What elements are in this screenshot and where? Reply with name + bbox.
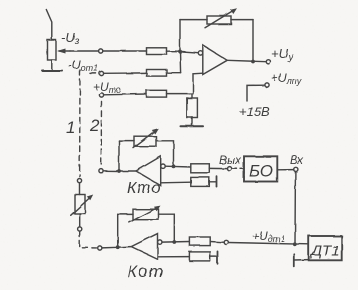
variable resistor RV2 — [134, 136, 156, 146]
op-amp U1 triangle — [203, 45, 227, 74]
svg-text:Вх: Вх — [290, 155, 304, 167]
node DT1 junction — [293, 242, 297, 246]
svg-text:Вых: Вых — [219, 155, 242, 167]
resistor R2 — [147, 70, 167, 77]
svg-text:Кто: Кто — [127, 180, 161, 197]
op-amp Kto triangle (points left) — [136, 156, 161, 185]
terminal circle row2 — [99, 71, 103, 75]
wire: Kot feedback riser — [117, 214, 119, 247]
dashed line 1 vertical — [79, 70, 81, 177]
wire: terminal to DT1 node and box — [228, 243, 308, 245]
svg-text:+15В: +15В — [239, 104, 270, 119]
wire dash before row2 terminal — [90, 72, 96, 74]
terminal circle +Uy — [266, 60, 270, 64]
op-amp Kot input bubble — [158, 240, 162, 244]
variable resistor RV2 arrow — [133, 128, 158, 147]
terminal circle line1 bottom — [98, 246, 102, 250]
wire: R5 to Vyh terminal — [209, 167, 227, 169]
wire: BO to Vx terminal — [277, 169, 293, 171]
wire: Kot feedback top left — [118, 213, 133, 215]
wire: feedback left riser to summing node — [179, 20, 181, 52]
terminal circle Вых — [228, 167, 232, 171]
variable resistor RV4 — [133, 209, 159, 220]
wire: R7 to terminal — [210, 241, 224, 244]
wire: R2 to bus — [167, 72, 181, 74]
node Kto output junction — [117, 169, 121, 173]
wire: Kto feedback top right and drop — [156, 141, 174, 167]
potentiometer RP1 body — [48, 40, 57, 60]
wire: node to R4 top — [191, 94, 193, 98]
block ДТ1 box — [309, 236, 342, 260]
wire: feedback top right segment — [231, 19, 253, 21]
terminal circle line2 bottom — [99, 169, 103, 173]
stub bar at DT1 — [293, 254, 295, 267]
node Kot output junction — [116, 245, 120, 249]
terminal circle +Uлпу — [265, 83, 269, 87]
op-amp Kot triangle (points left) — [131, 234, 157, 259]
wire: Kto feedback riser — [118, 141, 120, 171]
wire: Kto bubble to R5 — [165, 165, 191, 168]
svg-text:2: 2 — [89, 116, 100, 135]
potentiometer RP1 wiper arrow — [57, 49, 70, 54]
wire: Kot feedback top right and drop — [159, 214, 175, 242]
ground below R4 — [181, 125, 204, 127]
wire: node to Kot apex — [118, 246, 132, 249]
wire: row1 terminal to R1 — [103, 50, 147, 52]
wire: summing node to U1 inverting input — [180, 51, 198, 52]
terminal circle Вх — [294, 167, 298, 171]
wire: Kot bubble to R7 — [162, 241, 189, 244]
wire: line2 terminal to Kto output node — [103, 170, 119, 172]
wire: +15V elbow — [247, 85, 265, 101]
wire: U1 output to +Uy terminal — [227, 60, 266, 61]
wire: wiper to node -Uз row — [70, 50, 99, 52]
wire: R1 to summing node — [167, 50, 181, 52]
resistor R4 vertical — [187, 98, 198, 118]
wire: Vx drop to DT1 row — [294, 172, 296, 245]
op-amp U1 inverting input bubble — [198, 51, 202, 55]
wire: terminal to RV3 — [79, 183, 81, 195]
ground at potentiometer — [42, 70, 62, 72]
block БО box — [244, 156, 277, 181]
svg-text:БО: БО — [249, 162, 273, 181]
wire: RV3 to lower terminal — [79, 214, 81, 227]
variable resistor RV1 — [207, 16, 231, 24]
resistor R6 — [191, 177, 210, 186]
wire: node to Kto apex — [119, 170, 136, 172]
wire: feedback riser right — [252, 20, 254, 62]
wire: R6 to stub — [209, 181, 216, 183]
terminal circle row3 — [99, 93, 103, 97]
resistor R1 — [147, 48, 167, 55]
variable resistor RV3 arrow — [71, 195, 94, 216]
terminal circle below RV3 — [78, 227, 82, 231]
wire: row2 terminal to R2 — [104, 72, 147, 74]
resistor R5 — [191, 164, 210, 173]
terminal circle row1 — [99, 49, 103, 53]
wire: DT1 common stub — [294, 259, 309, 261]
potentiometer RP1 top lead — [46, 10, 52, 41]
wire: R8 to stub — [210, 256, 217, 258]
wire: R4 bottom to ground — [191, 118, 193, 127]
variable resistor RV1 arrow — [205, 8, 237, 28]
svg-text:ДТ1: ДТ1 — [310, 243, 340, 260]
wire: Kto feedback top left — [119, 140, 134, 142]
svg-text:1: 1 — [66, 118, 75, 137]
wire dashed: Vyh to BO box — [233, 168, 245, 170]
terminal circle +Uдт1 row — [224, 240, 228, 244]
node Kto input junction — [172, 165, 176, 169]
resistor R8 — [189, 252, 210, 261]
stub bar after R8 — [217, 251, 219, 263]
wire: terminal to Kot output node — [102, 246, 118, 249]
op-amp Kto input bubble — [161, 164, 165, 168]
variable resistor RV3 — [75, 195, 86, 214]
wire: R3 to non-inverting node — [167, 73, 203, 93]
wire: feedback top left segment — [180, 19, 207, 21]
svg-text:Кот: Кот — [127, 262, 164, 281]
potentiometer RP1 bottom lead — [51, 60, 53, 70]
wire: summing bus down to R2 row — [179, 51, 182, 72]
wire: row3 terminal to R3 — [104, 93, 147, 96]
wire: Kot lower input to R8 — [158, 256, 190, 258]
dashed line 1 lower segment — [80, 232, 97, 248]
node U1 output junction — [251, 60, 255, 64]
node Kot input junction — [172, 240, 176, 244]
dashed line 2 vertical — [100, 102, 102, 167]
resistor R7 — [189, 237, 210, 246]
terminal circle above RV3 — [77, 179, 81, 183]
stub bar after R6 — [216, 176, 218, 186]
node A summing junction — [178, 50, 182, 54]
resistor R3 — [147, 90, 167, 97]
wire: Kto lower input to R6 — [161, 181, 191, 184]
variable resistor RV4 arrow — [129, 206, 160, 223]
